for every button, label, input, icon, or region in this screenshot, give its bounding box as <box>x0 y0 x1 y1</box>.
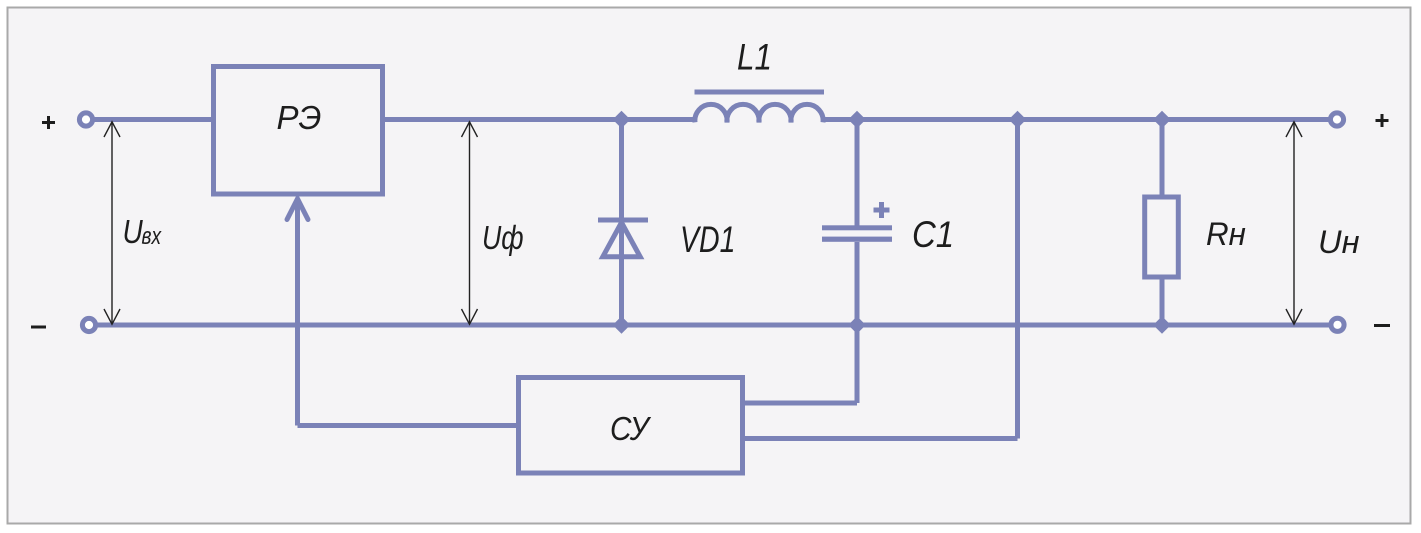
svg-text:Uф: Uф <box>482 220 524 256</box>
svg-text:РЭ: РЭ <box>277 99 322 136</box>
svg-text:L1: L1 <box>737 37 772 78</box>
svg-text:VD1: VD1 <box>680 218 735 259</box>
svg-text:Rн: Rн <box>1206 216 1246 252</box>
svg-text:Uн: Uн <box>1318 224 1360 260</box>
svg-text:СУ: СУ <box>610 411 652 448</box>
svg-text:C1: C1 <box>912 214 954 255</box>
svg-text:вх: вх <box>142 222 163 250</box>
svg-text:U: U <box>123 214 144 251</box>
